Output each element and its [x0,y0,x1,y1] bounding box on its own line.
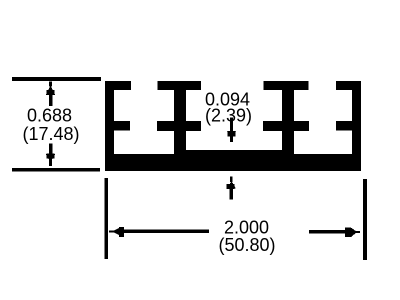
W1 mid nub [105,121,130,131]
svg-text:(17.48): (17.48) [22,124,79,144]
wall W3 stem [282,81,294,171]
2.000 left arrow [109,227,209,237]
W4 mid nub [336,121,352,131]
extrusion profile base plate [105,81,361,171]
W2 top flange [158,81,202,90]
W2 mid flange [157,121,201,131]
svg-text:(2.39): (2.39) [205,106,252,126]
0.688 up arrow [46,82,55,106]
0.688 down arrow [46,144,55,167]
W4 top flange [336,81,361,90]
dimension 0.688 extension line top [12,77,101,81]
wall W2 stem [174,81,186,171]
dimension 2.000 extension line right [363,179,367,260]
0.094 up arrow [227,177,236,200]
raised middle channel floor [186,150,282,155]
W1 top flange [105,81,131,90]
2.000 right arrow [309,228,360,238]
right outer wall W4 [352,81,361,171]
left outer wall W1 [105,81,114,171]
0.094 down arrow [227,118,236,143]
W3 mid flange [263,121,309,131]
dimension 0.688 extension line bottom [12,168,100,172]
W3 top flange [264,81,309,90]
svg-text:0.688: 0.688 [27,106,72,126]
svg-text:(50.80): (50.80) [218,235,275,255]
dimension 2.000 extension line left [105,178,108,259]
